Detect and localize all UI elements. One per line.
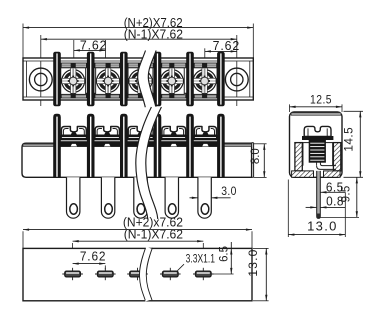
side view: dimension 6.5 (320, 180, 345, 194)
side view: threaded shank (309, 140, 325, 163)
svg-text:3.0: 3.0 (221, 185, 236, 198)
front view: barrier wall 5 (187, 114, 194, 177)
top view: cell 1 box (61, 68, 86, 95)
bottom view: dimension (N-1)X7.62 (73, 227, 204, 269)
bottom view: break wave (139, 248, 152, 301)
top view: barrier post 5 (187, 52, 194, 106)
side view: clamp bottom plate (317, 162, 336, 169)
side view: solder pin (317, 171, 321, 219)
svg-text:7.62: 7.62 (80, 38, 107, 52)
side view: dimension 13.0 (288, 180, 345, 238)
side view: body outline (290, 112, 343, 177)
bottom view: dimension 13.0 right (246, 248, 269, 300)
top view: cell 1 gray bands (59, 63, 88, 98)
bottom view: body outline (23, 248, 252, 300)
front view: barrier wall 4 (154, 114, 161, 177)
side view: dimension 9.5 (318, 177, 359, 217)
top view: cell 5 gray bands (192, 63, 218, 98)
front view: break wave (136, 107, 162, 219)
front view: wire clamp 5 (193, 127, 218, 147)
top view: dimension (N+2)X7.62 (23, 15, 253, 30)
side view: dimension 0.8 (306, 194, 346, 208)
top view: screw 3 (128, 63, 153, 98)
top view: cell 2 box (96, 68, 121, 95)
front view: dimension 3.0 (190, 185, 237, 199)
side view: hatched base strip (292, 171, 341, 177)
front view: pin 3 hole (137, 204, 145, 215)
front view: barrier wall 2 (87, 114, 94, 177)
side view: screw flange (302, 136, 333, 139)
front view: pin 1 (67, 177, 80, 218)
top view: cell 3 gray bands (126, 63, 155, 98)
front view: wire clamp 3 (127, 127, 155, 147)
svg-text:7.62: 7.62 (213, 39, 240, 53)
svg-text:6.5: 6.5 (326, 180, 344, 194)
svg-text:13.0: 13.0 (307, 219, 338, 234)
top view: strip body outline (23, 58, 253, 100)
front view: wire clamp 1 (60, 127, 88, 147)
bottom view: pin slot 3 (127, 268, 148, 280)
bottom view: dimension 7.62 (73, 249, 107, 269)
top view: break wave (138, 51, 156, 108)
svg-text:14.5: 14.5 (341, 127, 355, 152)
top view: barrier post 1 (54, 52, 61, 106)
top view: barrier post 6 (218, 52, 225, 106)
front view: barrier wall 3 (121, 114, 128, 177)
front view: wire clamp 4 (160, 127, 187, 147)
top view: mounting hole centerlines (41, 35, 237, 106)
top view: cell 4 gray bands (160, 63, 188, 98)
top view: (N+2)X7.62 extension lines (23, 24, 253, 59)
side view: clamp right wall hatched (333, 143, 340, 171)
top view: cell 2 gray bands (93, 63, 121, 98)
front view: pin 2 (101, 177, 114, 218)
bottom view: dimension 6.5 (212, 242, 234, 274)
top view: barrier post 3 (121, 52, 128, 106)
front view: wire clamp 2 (94, 127, 122, 147)
front view: body top gray band (23, 144, 251, 147)
bottom view: dimension (N+2) line (23, 228, 252, 248)
svg-text:(N-1)X7.62: (N-1)X7.62 (124, 27, 183, 41)
top view: dimension (N-1)X7.62 (41, 27, 237, 41)
bottom view: pin slot 1 (62, 268, 83, 280)
side view: dimension 14.5 (341, 111, 363, 177)
bottom view: pin slot 5 (193, 268, 214, 280)
top view: cell 4 box (159, 68, 184, 95)
svg-text:(N-1)X7.62: (N-1)X7.62 (124, 227, 183, 241)
front view: pin 5 (198, 177, 211, 218)
top view: barrier post 2 (87, 52, 94, 106)
top view: screw 4 (159, 63, 184, 98)
front view: barrier wall 6 (218, 114, 225, 177)
front view: pin 3 (134, 177, 147, 218)
top view: screw 2 (96, 63, 121, 98)
top view: screw 5 (192, 63, 217, 98)
top view: cell 5 box (192, 68, 217, 95)
side view: screw head (304, 126, 331, 136)
top view: dimension 7.62 right (205, 39, 240, 58)
front view: barrier wall 1 (54, 114, 61, 177)
top view: left mounting hole (29, 68, 52, 91)
front view: pin 4 (165, 177, 178, 218)
side view: dimension 12.5 (290, 94, 343, 112)
front view: dimension 8.0 (249, 144, 267, 178)
top view: right mounting hole (225, 68, 248, 91)
svg-text:13.0: 13.0 (246, 249, 260, 277)
svg-text:12.5: 12.5 (310, 94, 332, 107)
top view: screw 1 (61, 63, 86, 98)
top view: mounting hole centerlines over holes (41, 61, 237, 97)
side view: clamp left wall hatched (295, 143, 302, 171)
top view: dimension 7.62 left pitch (74, 38, 108, 58)
svg-text:7.62: 7.62 (80, 249, 107, 263)
bottom view: pin slot 2 (95, 268, 116, 280)
bottom view: label 3.3X1.1 with leader (177, 253, 215, 270)
side view: clamp inner edges (302, 143, 333, 166)
top view: barrier post 4 (154, 52, 161, 106)
svg-text:3.3X1.1: 3.3X1.1 (186, 253, 216, 266)
front view: body bar (22, 143, 254, 178)
svg-text:6.5: 6.5 (217, 246, 230, 262)
top view: cell 3 box (128, 68, 153, 95)
bottom view: pin slot 4 (160, 268, 181, 280)
svg-text:0.8: 0.8 (326, 194, 344, 208)
svg-text:8.0: 8.0 (249, 148, 262, 164)
